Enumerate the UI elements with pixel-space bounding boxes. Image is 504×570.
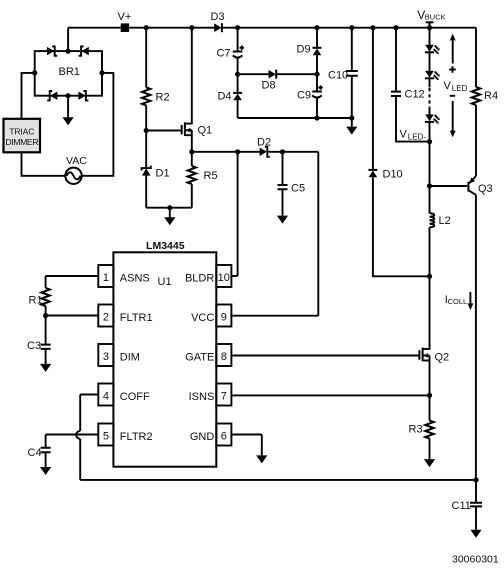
- svg-text:2: 2: [103, 311, 109, 323]
- ground below R3: [429, 439, 431, 460]
- wire ISNS node to R3: [429, 395, 431, 420]
- wire rail to LED1: [429, 28, 431, 45]
- wire Q3 collector down: [475, 195, 477, 480]
- wire Q1 source to node: [191, 130, 193, 152]
- node bottom right junction: [473, 477, 478, 482]
- node switch junction D10: [427, 274, 432, 279]
- U1 pin 3 box: [98, 344, 113, 366]
- wire D2 cathode to corner: [268, 151, 318, 153]
- U1 pin 4 box: [98, 384, 113, 406]
- wire pin4 COFF: [80, 394, 98, 396]
- wire rail corner to R4: [475, 28, 477, 87]
- diode D9: [313, 47, 322, 49]
- wire Q3 base: [430, 185, 468, 187]
- transistor Q3: [468, 176, 492, 195]
- svg-text:FLTR2: FLTR2: [120, 431, 153, 443]
- svg-text:6: 6: [221, 430, 227, 442]
- bridge BR1 outline: [35, 51, 102, 96]
- svg-text:D4: D4: [217, 90, 231, 102]
- svg-text:C10: C10: [328, 69, 348, 81]
- wire D8 line left: [238, 73, 269, 75]
- node D8 left junction: [235, 72, 240, 77]
- svg-text:C9: C9: [297, 90, 311, 102]
- svg-text:DIM: DIM: [120, 351, 140, 363]
- wire top rail middle segment: [129, 27, 215, 29]
- node junction rail-D10: [370, 25, 375, 30]
- svg-text:LM3445: LM3445: [146, 240, 185, 252]
- wire pin6 GND: [231, 434, 261, 436]
- wire BLDR to pin10: [231, 275, 237, 277]
- wire D1 to bottom: [145, 176, 147, 208]
- svg-text:10: 10: [218, 272, 230, 284]
- wire rail to C12: [395, 28, 397, 92]
- svg-text:R3: R3: [409, 424, 423, 436]
- svg-text:V+: V+: [118, 11, 132, 23]
- wire D9 to C9: [316, 55, 318, 91]
- wire VCC to pin9: [231, 315, 318, 317]
- wire node to D4: [237, 74, 239, 93]
- zener D2: [260, 148, 267, 157]
- bridge BR1 diode top-left: [47, 47, 54, 55]
- svg-text:3: 3: [103, 351, 109, 363]
- resistor R3: [425, 421, 433, 439]
- ground below C3: [45, 349, 47, 364]
- wire bottom long: [80, 479, 476, 481]
- node Q1 source junction: [189, 149, 194, 154]
- wire gate node to D1: [145, 131, 147, 168]
- wire LED3 to VLED- node: [429, 122, 431, 142]
- wire base node to L2: [429, 186, 431, 213]
- node D2 cathode junction: [280, 149, 285, 154]
- node valley bottom C9: [314, 115, 319, 120]
- wire R4 to Q3 emitter: [475, 105, 477, 176]
- wire hop over FLTR2: [76, 431, 80, 439]
- LED string diode 2: [425, 71, 440, 80]
- svg-text:BUCK: BUCK: [425, 13, 446, 22]
- node junction rail-R2: [144, 25, 149, 30]
- U1 pin 6 box: [216, 424, 231, 446]
- svg-text:C7: C7: [216, 48, 230, 60]
- node BR1 top center: [66, 49, 71, 54]
- svg-text:1: 1: [103, 272, 109, 284]
- node VLED- junction: [427, 139, 432, 144]
- wire LED1 to LED2: [429, 52, 431, 71]
- capacitor C7 polarized: [233, 51, 243, 53]
- wire gate node to Q1 gate: [146, 130, 181, 132]
- wire top rail left segment: [68, 27, 121, 29]
- wire C7 to D8 node: [237, 58, 239, 75]
- diode D10: [368, 169, 377, 171]
- svg-text:ASNS: ASNS: [120, 272, 150, 284]
- bridge BR1 diode top-right: [82, 47, 89, 55]
- node junction rail-Q1: [189, 25, 194, 30]
- wire dashed LED continuation: [429, 88, 431, 106]
- svg-text:GND: GND: [190, 431, 215, 443]
- TRIAC dimmer box: [4, 119, 41, 153]
- LED string diode 3: [425, 114, 440, 123]
- wire pin1 ASNS: [46, 275, 99, 277]
- wire ASNS down to R1: [45, 276, 47, 288]
- wire TRIAC to VAC: [22, 152, 66, 176]
- wire dashes to LED3: [429, 107, 431, 115]
- U1 pin 7 box: [216, 384, 231, 406]
- wire node to C3: [45, 316, 47, 345]
- capacitor C9 polarized: [312, 91, 322, 93]
- svg-text:5: 5: [103, 430, 109, 442]
- LED string diode 1: [425, 45, 440, 54]
- wire rail to C7: [237, 28, 239, 52]
- bridge BR1 diode bottom-right: [78, 92, 85, 100]
- node junction rail-D9: [314, 25, 319, 30]
- wire node to C11: [475, 480, 477, 503]
- wire pin8 GATE to Q2: [231, 355, 418, 357]
- wire D10 anode to switch node: [373, 177, 430, 276]
- wire BR1 top riser: [67, 28, 69, 51]
- wire rail to D10: [372, 28, 374, 170]
- svg-text:LED-: LED-: [408, 132, 427, 141]
- svg-text:C5: C5: [291, 183, 305, 195]
- wire FLTR2 down to C4: [45, 435, 47, 448]
- svg-text:COFF: COFF: [120, 391, 150, 403]
- annotation minus sign: [450, 95, 455, 97]
- wire D8 line right: [277, 73, 317, 75]
- svg-text:U1: U1: [158, 276, 172, 288]
- svg-text:Q1: Q1: [198, 125, 213, 137]
- diode D4: [233, 92, 242, 94]
- wire BLDR riser: [237, 152, 239, 276]
- svg-text:TRIAC: TRIAC: [9, 126, 34, 136]
- annotation ICOLL arrow: [469, 292, 471, 304]
- wire node to C5: [282, 152, 284, 185]
- svg-text:9: 9: [221, 311, 227, 323]
- resistor R5: [188, 166, 196, 184]
- annotation VLED up arrow: [452, 40, 454, 64]
- svg-text:D9: D9: [297, 44, 311, 56]
- wire R1 to FLTR1 node: [45, 306, 47, 316]
- svg-text:BLDR: BLDR: [185, 272, 214, 284]
- wire rail to R2: [145, 28, 147, 88]
- transistor Q2: [419, 348, 449, 364]
- node bottom ground junction: [167, 205, 172, 210]
- transistor Q1: [182, 122, 212, 136]
- resistor R2: [142, 87, 150, 105]
- wire VLED- node down to Q3 base node: [429, 142, 431, 186]
- source VAC: [65, 168, 81, 184]
- inductor L2: [430, 213, 435, 227]
- svg-text:D2: D2: [257, 136, 271, 148]
- node D2 anode junction: [235, 149, 240, 154]
- capacitor C11: [470, 503, 482, 507]
- node junction rail-C7: [235, 25, 240, 30]
- svg-text:R2: R2: [156, 91, 170, 103]
- svg-text:4: 4: [103, 390, 109, 402]
- svg-text:Q2: Q2: [435, 351, 450, 363]
- capacitor C12: [391, 92, 401, 96]
- wire BR1 left tap: [22, 73, 35, 119]
- ground below valley fill: [351, 118, 353, 127]
- svg-text:R5: R5: [204, 170, 218, 182]
- capacitor C10: [346, 71, 358, 76]
- wire L2 to switch node: [429, 227, 431, 276]
- U1 pin 9 box: [216, 305, 231, 327]
- annotation plus sign: [449, 66, 455, 72]
- wire valley bottom line: [238, 117, 352, 119]
- wire pin5 FLTR2: [46, 434, 99, 436]
- ground below C4: [45, 452, 47, 467]
- wire D2 line left: [192, 151, 260, 153]
- svg-text:D3: D3: [211, 11, 225, 23]
- node junction rail-LED VBUCK: [427, 25, 432, 30]
- svg-text:DIMMER: DIMMER: [5, 137, 38, 147]
- svg-text:FLTR1: FLTR1: [120, 312, 153, 324]
- svg-text:C3: C3: [27, 340, 41, 352]
- wire D4 to valley bottom: [237, 100, 239, 118]
- node Q3 base junction: [427, 183, 432, 188]
- ground below GND pin: [261, 435, 263, 456]
- op-amp U1 LM3445 IC body: [113, 252, 216, 466]
- svg-text:GATE: GATE: [185, 351, 214, 363]
- wire bottom D1-R5: [146, 207, 192, 209]
- svg-text:7: 7: [221, 390, 227, 402]
- node D8 right junction: [314, 72, 319, 77]
- svg-text:C12: C12: [405, 89, 425, 101]
- ground below BR1: [67, 96, 69, 118]
- wire Q2 source to ISNS node: [429, 356, 431, 396]
- wire pin2 FLTR1: [46, 315, 99, 317]
- wire switch node to Q2 drain: [423, 276, 429, 349]
- svg-text:VAC: VAC: [66, 155, 87, 167]
- annotation VLED down arrow: [452, 101, 454, 131]
- svg-text:L2: L2: [439, 215, 451, 227]
- resistor R4: [472, 87, 480, 105]
- resistor R1: [41, 288, 49, 306]
- svg-text:30060301: 30060301: [452, 554, 499, 566]
- U1 pin 1 box: [98, 265, 113, 287]
- bridge BR1 diode bottom-left: [50, 92, 57, 100]
- svg-text:8: 8: [221, 351, 227, 363]
- diode D8: [269, 70, 276, 79]
- capacitor C3: [41, 345, 51, 349]
- U1 pin 2 box: [98, 305, 113, 327]
- ground below C11: [475, 506, 477, 529]
- svg-text:D1: D1: [156, 168, 170, 180]
- svg-text:LED: LED: [452, 84, 468, 93]
- svg-text:C11: C11: [452, 500, 471, 512]
- capacitor C5: [278, 185, 288, 189]
- ground below D1 R5: [169, 208, 171, 218]
- wire C12 to VLED- node: [396, 96, 430, 142]
- wire R5 to bottom: [191, 184, 193, 208]
- diode D3: [214, 23, 221, 32]
- svg-text:COLL: COLL: [448, 297, 468, 306]
- wire VCC riser: [317, 152, 319, 316]
- wire rail to C10: [351, 28, 353, 71]
- svg-text:R1: R1: [29, 295, 43, 307]
- U1 pin 8 box: [216, 344, 231, 366]
- svg-text:V: V: [444, 80, 452, 92]
- svg-text:ISNS: ISNS: [189, 391, 215, 403]
- node ISNS junction: [427, 393, 432, 398]
- node junction rail-C12: [393, 25, 398, 30]
- node BR1 left: [32, 70, 37, 75]
- node BR1 right: [99, 70, 104, 75]
- svg-text:C4: C4: [28, 447, 42, 459]
- wire rail to Q1 drain: [186, 28, 192, 124]
- svg-text:R4: R4: [484, 90, 498, 102]
- node gate junction: [144, 128, 149, 133]
- node junction rail-C10: [349, 25, 354, 30]
- wire C9 to valley bottom: [316, 98, 318, 118]
- wire LED2 to dashes: [429, 78, 431, 87]
- node FLTR1 junction: [43, 313, 48, 318]
- wire R2 to gate node: [145, 105, 147, 130]
- svg-text:V: V: [400, 129, 408, 141]
- node VBUCK terminal mark: [426, 21, 434, 23]
- wire rail to D9: [316, 28, 318, 48]
- wire C10 to valley bottom: [351, 76, 353, 118]
- zener D1: [142, 168, 151, 175]
- U1 pin 10 box: [216, 265, 231, 287]
- node valley bottom C10: [349, 115, 354, 120]
- node V+ terminal square: [121, 23, 129, 32]
- ground below C5: [282, 189, 284, 215]
- svg-text:D8: D8: [262, 80, 276, 92]
- wire pin7 ISNS to node: [231, 394, 429, 396]
- wire COFF down lower to bottom: [79, 439, 81, 480]
- node BR1 bottom center: [66, 93, 71, 98]
- svg-text:VCC: VCC: [191, 312, 214, 324]
- svg-text:BR1: BR1: [59, 66, 80, 78]
- wire top rail right segment: [223, 27, 476, 29]
- svg-text:Q3: Q3: [478, 183, 493, 195]
- svg-text:D10: D10: [383, 169, 403, 181]
- U1 pin 5 box: [98, 424, 113, 446]
- wire node to R5: [191, 152, 193, 166]
- capacitor C4: [41, 448, 51, 453]
- wire VAC to BR1 right tap: [82, 73, 114, 176]
- wire COFF down upper: [79, 395, 81, 431]
